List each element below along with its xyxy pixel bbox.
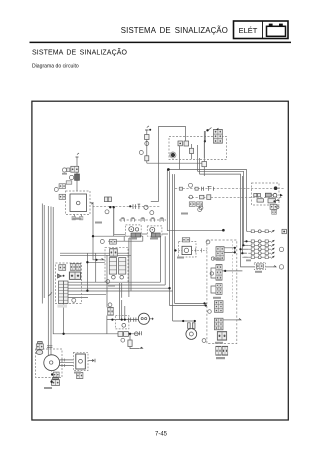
svg-text:SISTEMA DE SINALIZAÇÃO: SISTEMA DE SINALIZAÇÃO [121,26,228,35]
svg-text:SISTEMA DE SINALIZAÇÃO: SISTEMA DE SINALIZAÇÃO [32,48,127,57]
svg-text:7-45: 7-45 [155,432,168,438]
svg-text:Diagrama do circuito: Diagrama do circuito [32,64,79,70]
svg-text:ELÉT: ELÉT [239,26,258,35]
